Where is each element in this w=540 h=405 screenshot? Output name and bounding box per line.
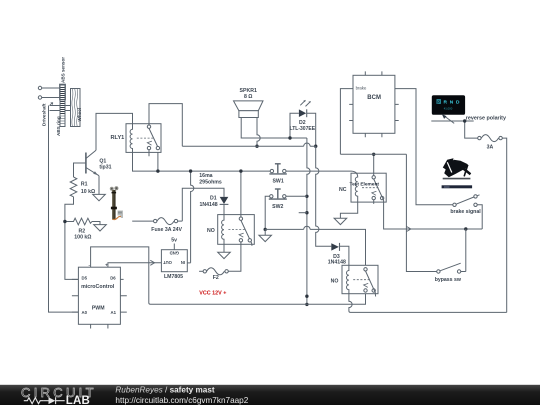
footer	[0, 385, 540, 405]
svg-text:SW2: SW2	[272, 204, 283, 210]
driveshaft shaft	[50, 106, 71, 111]
svg-text:1N4148: 1N4148	[200, 202, 218, 208]
wire bus SW1 to test relay coil	[286, 170, 352, 172]
relay RLY4 Test Element (NC)	[351, 173, 386, 202]
svg-text:Q1: Q1	[99, 158, 106, 164]
svg-text:D5: D5	[82, 275, 88, 280]
svg-text:D1: D1	[210, 196, 217, 202]
svg-text:Wheel: Wheel	[77, 108, 82, 122]
svg-text:RLY1: RLY1	[111, 135, 125, 141]
ABS sensor terminal circles	[38, 86, 41, 89]
wheel	[71, 89, 81, 127]
svg-text:100 kΩ: 100 kΩ	[74, 234, 91, 240]
relay RLY2 (NO, center)	[218, 215, 255, 245]
svg-text:NO: NO	[207, 228, 215, 234]
wire LM7805 IN from riser	[187, 262, 190, 264]
svg-text:SPKR1: SPKR1	[240, 88, 257, 94]
wire Q1 collector to RLY1 coil	[96, 113, 133, 150]
ABS sensor terminal wires	[42, 88, 60, 98]
relay RLY1	[126, 124, 161, 153]
svg-text:NO: NO	[331, 278, 339, 284]
wire test relay NC contact to brake signal net	[382, 197, 482, 229]
wire D2 anode	[290, 113, 299, 138]
svg-text:IN: IN	[181, 260, 185, 265]
wire Q1 base to R1	[74, 163, 86, 177]
wire SW2 left down to ground node	[265, 196, 269, 229]
svg-text:PWM: PWM	[92, 305, 105, 311]
svg-text:Driveshaft: Driveshaft	[42, 103, 47, 126]
fuse F2	[225, 270, 228, 273]
wire test relay common up to BCM node	[373, 154, 375, 175]
wire net D2-anode vertical x307 (hops over bus)	[307, 138, 310, 304]
wire riser to bypass switch	[406, 154, 436, 271]
BCM module box	[353, 75, 395, 133]
svg-text:Fuse 3A 24V: Fuse 3A 24V	[151, 227, 182, 233]
arrow joint on brake net	[407, 227, 411, 232]
wire bus to LM7805 riser (hop over y188.3)	[191, 171, 194, 263]
wire RLY1 switch top	[149, 104, 182, 147]
wire RLY1 net to speaker/D2 (y146) with hop at 306.9	[182, 143, 315, 146]
svg-text:41,000: 41,000	[444, 107, 453, 111]
resistor R2	[65, 218, 92, 225]
svg-text:SW1: SW1	[272, 179, 283, 185]
ground R2	[92, 222, 106, 232]
ground SW2	[259, 229, 272, 241]
wire under display to 3A fuse	[431, 121, 477, 138]
svg-text:ABS sensor: ABS sensor	[60, 57, 65, 83]
svg-text:OUT: OUT	[163, 260, 172, 265]
wire stub to x307	[299, 212, 307, 214]
wire D2 cathode	[307, 113, 316, 146]
svg-text:brake signal: brake signal	[450, 209, 481, 215]
wire net D2-cathode vertical x315.7 to D3 (hops over bus and y229)	[316, 146, 332, 246]
wire left rail to microcontroller A0	[49, 106, 79, 313]
svg-text:8 Ω: 8 Ω	[244, 94, 253, 100]
wire R1 to node	[65, 197, 79, 280]
diode D1	[220, 197, 229, 204]
switch brake signal	[453, 203, 456, 206]
svg-text:RubenReyes / safety mast: RubenReyes / safety mast	[115, 385, 215, 394]
svg-text:16ma: 16ma	[199, 173, 212, 179]
wire relay2 common to bus	[240, 171, 242, 217]
mast icon (safety mast)	[110, 186, 123, 219]
svg-text:VCC 12V +: VCC 12V +	[199, 290, 226, 296]
pushbutton SW1	[270, 169, 273, 172]
ABS ring strip	[60, 85, 65, 127]
wire brake signal right contact down to brake net	[477, 205, 482, 229]
svg-text:http://circuitlab.com/c6gvm7kn: http://circuitlab.com/c6gvm7kn7aap2	[115, 396, 248, 405]
brake pedal icon	[443, 178, 471, 180]
svg-text:1N4148: 1N4148	[328, 259, 346, 265]
wire SW2 right to x307	[286, 195, 307, 197]
svg-text:reverse polarity: reverse polarity	[466, 116, 506, 122]
svg-text:NC: NC	[339, 187, 347, 193]
svg-text:+: +	[105, 263, 108, 268]
svg-text:N: N	[450, 100, 454, 106]
svg-text:GND: GND	[170, 251, 179, 256]
svg-text:10 kΩ: 10 kΩ	[81, 189, 95, 195]
gear display module (reverse polarity)	[432, 95, 465, 115]
svg-text:D: D	[456, 100, 460, 106]
wire speaker right terminal (hops)	[257, 118, 260, 147]
svg-text:5v: 5v	[171, 237, 177, 243]
svg-text:bypass sw: bypass sw	[435, 277, 462, 283]
wire relay3 coil bottom (hops over VCC bus) to bottom rail	[349, 294, 507, 313]
svg-text:P: P	[437, 99, 440, 104]
resistor R1	[70, 177, 77, 197]
wire RLY1 switch bottom to bus	[157, 152, 159, 171]
ABS sensor box	[60, 84, 66, 100]
voltage regulator U2 LM7805	[161, 250, 187, 272]
svg-text:A1: A1	[111, 310, 117, 315]
ground relay2 coil	[218, 244, 231, 258]
svg-text:D6: D6	[110, 275, 116, 280]
wire bypass right riser	[465, 229, 467, 272]
diode D3	[331, 243, 339, 250]
svg-text:F2: F2	[213, 275, 219, 281]
svg-text:BCM: BCM	[367, 95, 381, 101]
svg-text:A0: A0	[82, 310, 88, 315]
svg-text:microControl: microControl	[81, 284, 115, 290]
circuitlab logo	[21, 385, 249, 405]
reverse polarity pointer arrow	[444, 116, 455, 124]
fuse F3 3A	[478, 136, 481, 139]
ground test relay coil	[334, 218, 347, 224]
node R2 junction	[63, 220, 66, 223]
LED D2	[299, 109, 306, 117]
svg-text:brake: brake	[356, 86, 367, 91]
microcontroller U1	[78, 267, 120, 324]
svg-text:ABS ring: ABS ring	[56, 116, 61, 136]
svg-text:LM7805: LM7805	[164, 274, 183, 280]
wire fuse to D1 horizontal	[182, 188, 224, 221]
driveshaft rotation tick	[50, 103, 53, 106]
svg-text:LAB: LAB	[66, 395, 90, 405]
pushbutton SW2	[270, 195, 273, 198]
svg-text:Test Element: Test Element	[350, 181, 380, 187]
svg-text:LTL-307EE: LTL-307EE	[290, 126, 316, 132]
speaker SPKR1	[234, 101, 264, 111]
wire speaker left terminal	[241, 118, 307, 139]
wire relay2 bottom contact to F2	[228, 242, 241, 271]
svg-text:D2: D2	[299, 120, 306, 126]
switch bypass sw	[437, 270, 440, 273]
svg-text:tip31: tip31	[99, 165, 111, 171]
wire y229 to relay2 switch (hop over x307)	[265, 226, 365, 267]
svg-text:R1: R1	[81, 182, 88, 188]
svg-text:3A: 3A	[487, 145, 494, 151]
wire microcontroller top-right pin to LM7805 left pin with arrow	[108, 263, 161, 267]
relay RLY3 (NO, bottom right)	[342, 265, 378, 293]
wire RLY1 coil bottom to bus	[133, 152, 271, 171]
BCM wiring	[340, 89, 452, 205]
fuse F1 3A 24V	[132, 220, 153, 222]
ground Q1 emitter	[93, 176, 106, 201]
transistor Q1	[85, 153, 87, 174]
svg-text:R: R	[443, 100, 447, 106]
display PRND content	[437, 99, 460, 111]
svg-text:295ohms: 295ohms	[199, 180, 222, 186]
wire microcontroller top-left pin to VCC riser	[91, 247, 366, 304]
wire 3A fuse to right rail	[503, 138, 507, 312]
